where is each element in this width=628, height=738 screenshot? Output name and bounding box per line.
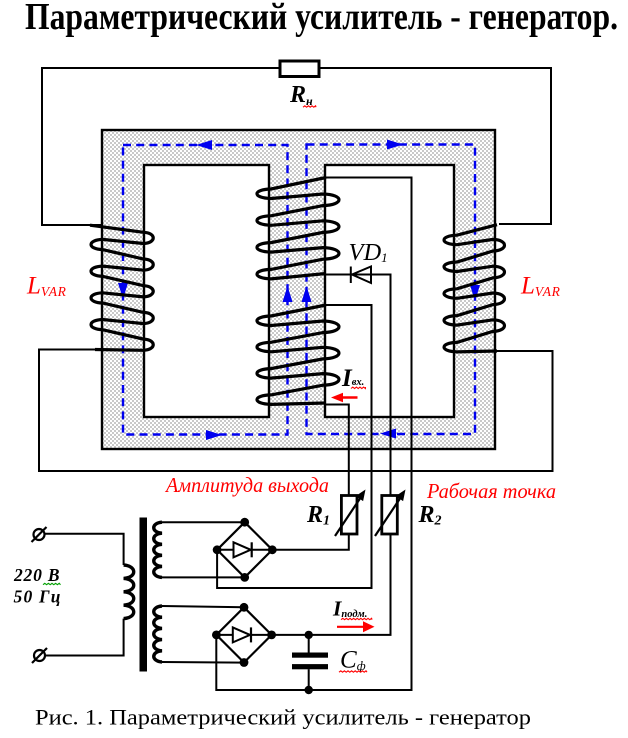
coil right LVAR xyxy=(444,225,504,352)
wire: Rn to right coil top tap xyxy=(319,68,551,224)
wire: center coil bottom tap to R1 top xyxy=(326,405,349,496)
rectifier bridge top xyxy=(217,522,272,577)
wire: R2 bottom to lower bridge + node xyxy=(272,534,391,635)
rectifier bridge bottom xyxy=(216,607,271,662)
flux arrow left-loop bottom xyxy=(206,430,222,440)
transformer secondary 1 xyxy=(154,522,162,577)
node Cf bottom xyxy=(305,686,313,694)
svg-text:Амплитуда выхода: Амплитуда выхода xyxy=(164,473,329,497)
svg-text:Параметрический усилитель - ге: Параметрический усилитель - генератор. xyxy=(25,0,618,38)
flux arrow center leg up 2 xyxy=(302,286,312,302)
flux arrow right-loop bottom xyxy=(380,429,396,439)
terminal bottom xyxy=(34,650,45,661)
coil left LVAR xyxy=(90,225,153,350)
svg-text:Рис. 1. Параметрический усилит: Рис. 1. Параметрический усилитель - гене… xyxy=(35,705,531,730)
transformer secondary 2 xyxy=(154,606,162,662)
arrow I vx xyxy=(343,396,358,399)
coil center top section xyxy=(257,178,339,279)
transformer core bar xyxy=(140,518,148,672)
flux arrow right-loop right leg xyxy=(470,285,480,301)
svg-text:Рабочая точка: Рабочая точка xyxy=(426,479,556,503)
wire: capacitor leads xyxy=(308,635,310,690)
flux path right loop xyxy=(307,145,476,435)
capacitor Cf xyxy=(292,653,328,658)
resistor Rn xyxy=(280,61,319,77)
flux arrow right-loop top xyxy=(387,140,403,150)
magnetic core (shaded) xyxy=(102,130,495,449)
arrow I podm xyxy=(337,626,364,628)
svg-text:220 В: 220 В xyxy=(13,565,60,585)
transformer primary xyxy=(45,534,124,565)
flux path left loop xyxy=(123,145,288,435)
resistor R2 xyxy=(382,496,398,535)
svg-text:50 Гц: 50 Гц xyxy=(14,587,61,607)
flux arrow center leg up 1 xyxy=(283,286,293,302)
node Cf top xyxy=(305,631,313,639)
flux arrow left-loop left leg xyxy=(118,283,128,299)
coil center bottom section xyxy=(257,305,339,404)
terminal top xyxy=(34,529,45,540)
wire: center coil mid tap through R-column to upper bridge left xyxy=(217,305,371,588)
wire: VD1 to R2 top xyxy=(326,275,391,496)
resistor R1 xyxy=(341,496,357,535)
wire: R1 bottom to upper bridge right xyxy=(272,534,349,550)
flux arrow left-loop top xyxy=(196,140,212,150)
wire: center coil top tap down right side to bottom rail xyxy=(216,178,411,691)
wire: left coil top tap to Rn xyxy=(42,68,280,225)
wire: left coil bottom tap, bottom rail, right coil bottom tap xyxy=(39,350,553,472)
diode VD1 xyxy=(351,267,371,284)
